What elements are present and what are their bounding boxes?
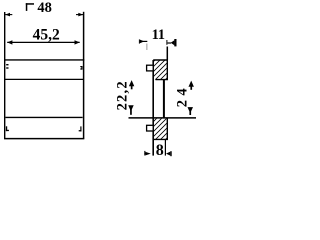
top clamp block (hatched) bbox=[153, 60, 167, 80]
cutout corner mark top-right bbox=[80, 66, 82, 70]
cutout corner mark bottom-left bbox=[6, 126, 9, 131]
body back line (between blocks) bbox=[163, 80, 165, 118]
dimension 11: right extension line (overshoot above block corner) bbox=[166, 47, 168, 61]
svg-text:8: 8 bbox=[156, 142, 164, 159]
dimension 8: right extension line bbox=[164, 140, 166, 156]
dimension 11: right arrow bbox=[166, 39, 176, 46]
dimension 24: down arrow bbox=[188, 107, 194, 115]
dimension 8: right arrow bbox=[166, 151, 172, 156]
front view outer square (48 x 48 bezel) with extension lines up to dim 48 bbox=[4, 12, 6, 139]
bezel inner horizontal line (full width) bbox=[5, 78, 84, 80]
dimension 22,2: down arrow bbox=[128, 105, 134, 115]
dimension 11: faint left extension line bbox=[146, 44, 148, 51]
panel line (long horizontal) bbox=[129, 117, 197, 119]
top hook tab bbox=[147, 65, 154, 71]
svg-text:48: 48 bbox=[37, 0, 52, 16]
bottom clamp block (hatched) bbox=[153, 118, 167, 139]
svg-text:24: 24 bbox=[175, 84, 191, 107]
dimension 45,2: left arrow bbox=[7, 40, 12, 44]
dimension 45,2: right arrow bbox=[75, 40, 80, 44]
bottom hook tab bbox=[147, 125, 154, 131]
dimension 24: up arrow bbox=[189, 81, 194, 90]
svg-text:22,2: 22,2 bbox=[115, 80, 131, 110]
cutout corner mark bottom-right bbox=[79, 126, 82, 131]
inner horizontal line (lower) bbox=[6, 116, 83, 118]
cutout corner mark top-left bbox=[6, 64, 8, 69]
dimension 8: left arrow bbox=[144, 151, 151, 156]
dimension 11: left arrow bbox=[139, 39, 147, 43]
dimension 48: left arrow bbox=[5, 13, 12, 17]
dimension 48: right arrow bbox=[76, 13, 83, 17]
dimension 22,2: up arrow bbox=[129, 80, 134, 89]
square symbol of label 48 bbox=[26, 3, 34, 11]
dimension 45,2: line bbox=[7, 41, 80, 43]
clamp front vertical line bbox=[152, 60, 154, 156]
svg-text:11: 11 bbox=[152, 27, 165, 43]
svg-text:45,2: 45,2 bbox=[33, 27, 60, 44]
